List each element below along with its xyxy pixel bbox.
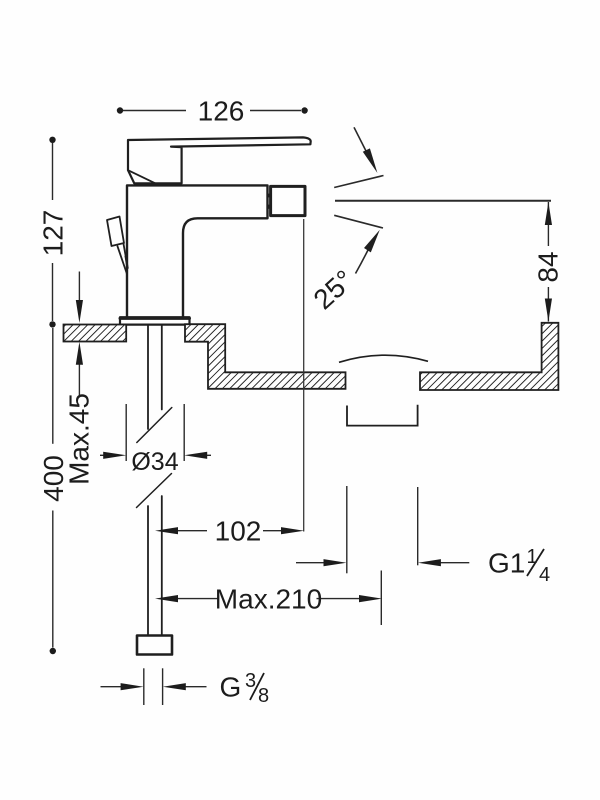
- svg-text:8: 8: [258, 685, 269, 707]
- svg-text:Max.210: Max.210: [215, 584, 322, 615]
- svg-text:G1: G1: [488, 548, 525, 579]
- svg-text:127: 127: [38, 210, 69, 257]
- svg-text:25°: 25°: [308, 264, 360, 315]
- svg-text:G: G: [220, 672, 242, 703]
- svg-text:102: 102: [215, 516, 262, 547]
- svg-text:3: 3: [245, 670, 256, 692]
- svg-text:126: 126: [198, 96, 245, 127]
- svg-text:1: 1: [527, 546, 538, 568]
- svg-text:Max.45: Max.45: [64, 393, 95, 485]
- svg-text:84: 84: [533, 251, 564, 282]
- svg-text:Ø34: Ø34: [131, 448, 178, 476]
- svg-text:4: 4: [539, 564, 550, 586]
